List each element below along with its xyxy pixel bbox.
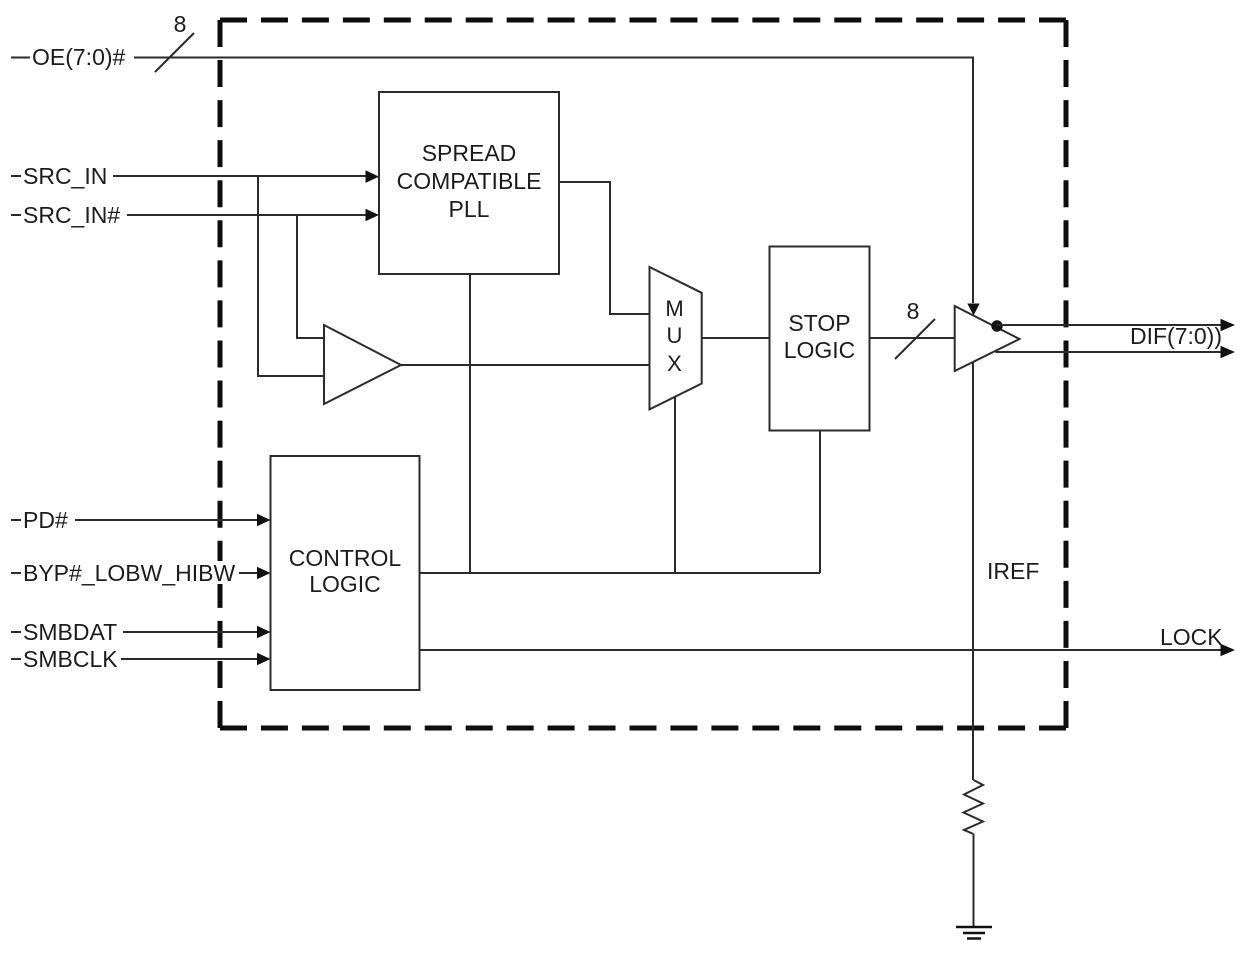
svg-text:STOP: STOP [788, 310, 850, 336]
wire resistor to ground [973, 834, 975, 927]
wire SRC_IN branch down to input buffer lower input [258, 176, 324, 376]
svg-text:8: 8 [907, 298, 920, 324]
chip boundary dashed box [220, 20, 1066, 728]
svg-text:IREF: IREF [987, 558, 1039, 584]
arrowhead SRC_IN# [366, 209, 380, 222]
arrowhead BYP#_LOBW_HIBW [257, 567, 271, 580]
svg-text:LOCK: LOCK [1160, 624, 1223, 650]
svg-text:OE(7:0)#: OE(7:0)# [32, 44, 126, 70]
label SMBDAT [21, 619, 123, 645]
label SMBCLK [21, 646, 121, 672]
label SRC_IN# [21, 202, 127, 228]
arrowhead DIF bottom [1221, 346, 1236, 358]
svg-text:SRC_IN#: SRC_IN# [23, 202, 120, 228]
wire STOP LOGIC bottom to control bus [819, 431, 821, 574]
svg-text:CONTROL: CONTROL [289, 545, 402, 571]
svg-text:SPREAD: SPREAD [422, 140, 517, 166]
svg-text:LOGIC: LOGIC [309, 571, 381, 597]
svg-text:LOGIC: LOGIC [784, 337, 856, 363]
svg-text:8: 8 [174, 11, 187, 37]
svg-text:SMBCLK: SMBCLK [23, 646, 118, 672]
svg-text:DIF(7:0)): DIF(7:0)) [1130, 323, 1222, 349]
wire SRC_IN# into PLL [11, 214, 368, 216]
svg-text:X: X [667, 351, 682, 376]
wire OE(7:0)# horizontal then down to output buffer [11, 58, 973, 304]
wire SRC_IN into PLL [11, 175, 368, 177]
svg-text:SMBDAT: SMBDAT [23, 619, 117, 645]
wire PD# input [11, 519, 259, 521]
wire control bus from CONTROL LOGIC right to STOP LOGIC bottom [420, 572, 821, 574]
wire PLL bottom to control bus [469, 274, 471, 573]
wire DIF top output [997, 324, 1223, 326]
svg-text:PD#: PD# [23, 507, 68, 533]
junction dot on buffer top output [991, 320, 1002, 331]
wire SMBCLK input [11, 658, 259, 660]
bus width slash (8) on output bus [895, 319, 935, 359]
block STOP LOGIC [770, 247, 870, 431]
svg-text:BYP#_LOBW_HIBW: BYP#_LOBW_HIBW [23, 560, 235, 586]
label BYP#_LOBW_HIBW [21, 560, 239, 586]
arrowhead LOCK [1221, 644, 1236, 656]
arrowhead SMBCLK [257, 653, 271, 666]
label OE(7:0)# [30, 44, 134, 70]
wire LOCK output [420, 649, 1223, 651]
label PD# [21, 507, 75, 533]
arrowhead into output buffer top [967, 304, 979, 316]
arrowhead PD# [257, 514, 271, 527]
bus width slash (8) on OE line [155, 33, 194, 72]
block SPREAD COMPATIBLE PLL [379, 92, 559, 274]
arrowhead SMBDAT [257, 626, 271, 639]
arrowhead DIF top [1221, 319, 1236, 331]
input buffer (amplifier triangle) [324, 325, 401, 404]
output buffer triangle [955, 306, 1020, 371]
svg-text:U: U [667, 323, 683, 348]
mux MUX trapezoid [650, 267, 702, 409]
arrowhead SRC_IN [366, 170, 380, 183]
wire DIF bottom output [996, 351, 1223, 353]
svg-text:M: M [665, 296, 683, 321]
wire PLL output to MUX upper input [559, 182, 649, 314]
wire MUX output to STOP LOGIC [702, 337, 770, 339]
svg-text:PLL: PLL [449, 196, 490, 222]
svg-text:SRC_IN: SRC_IN [23, 163, 107, 189]
wire IREF from buffer down to resistor [972, 362, 974, 780]
wire BYP#_LOBW_HIBW input [11, 572, 259, 574]
label SRC_IN [21, 163, 113, 189]
wire buffer output to MUX lower input [401, 364, 649, 366]
block CONTROL LOGIC [271, 456, 420, 690]
wire SMBDAT input [11, 631, 259, 633]
ground symbol [956, 927, 992, 939]
svg-text:COMPATIBLE: COMPATIBLE [397, 168, 542, 194]
wire MUX select from control bus [674, 397, 676, 573]
wire SRC_IN# branch down to input buffer upper input [297, 215, 324, 338]
wire STOP LOGIC output bus to output buffer [870, 337, 956, 339]
resistor (IREF) zigzag [964, 780, 984, 834]
